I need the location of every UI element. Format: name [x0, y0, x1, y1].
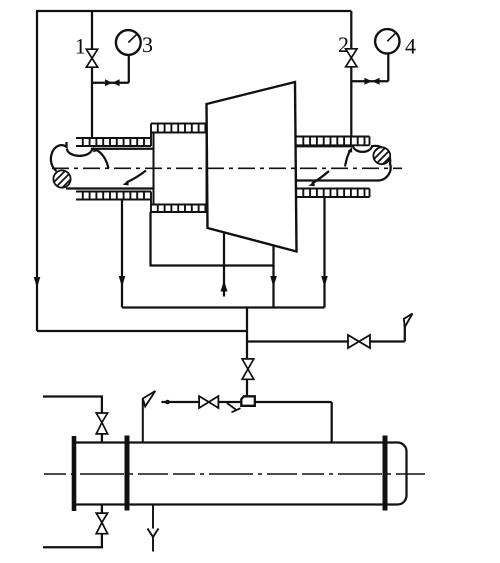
- wire: top header pipe: [36, 10, 351, 12]
- steam trap / regulator body: [241, 396, 255, 406]
- valve 2: [346, 49, 357, 67]
- left gland inner labyrinth (lower): [151, 205, 207, 213]
- condenser shell: [76, 443, 385, 505]
- left gland outer labyrinth (lower): [76, 192, 151, 213]
- wire: left gland supply pipe: [91, 11, 93, 139]
- drain tick under trap: [227, 403, 241, 412]
- wire: leak-off collector header: [122, 306, 325, 308]
- vent flag symbol: [404, 314, 413, 328]
- condenser right tube sheet: [383, 436, 388, 511]
- label 1: [77, 39, 85, 54]
- right shaft end journal (hatched): [364, 133, 396, 180]
- wire: left inner gland drain: [151, 212, 274, 266]
- left shaft outline: [51, 142, 154, 189]
- pressure gauge 4: [375, 29, 399, 53]
- wire: gauge 3 stem: [92, 55, 129, 83]
- vent valve: [348, 335, 370, 348]
- wire: cooling water outlet: [43, 505, 102, 547]
- wire: vent branch to atmosphere: [247, 319, 405, 342]
- node: turbine shaft centerline: [52, 167, 402, 169]
- right gland labyrinth (upper): [297, 137, 370, 146]
- gauge 4 isolation valve: [364, 78, 379, 85]
- label 2: [339, 37, 348, 52]
- wire: left outer leak-off pipe down: [36, 11, 38, 331]
- wire: collector drop pipe: [246, 308, 248, 397]
- wire: right gland supply pipe: [350, 11, 352, 137]
- right shaft outline: [297, 146, 391, 181]
- right gland steam flow arrow (to supply): [345, 150, 351, 167]
- vent flag at condenser: [142, 399, 144, 443]
- right gland labyrinth (lower): [297, 189, 370, 198]
- wire: condensate drain with funnel: [148, 505, 159, 552]
- left gland steam flow arrow (leak): [127, 171, 147, 183]
- condenser left water-box flange: [72, 436, 77, 511]
- wire: turbine sealing steam riser: [223, 233, 225, 297]
- trap line valve: [199, 396, 218, 408]
- right gland steam flow arrow (leak): [312, 171, 329, 184]
- condenser left tube sheet: [125, 436, 130, 511]
- condenser right head: [385, 443, 407, 505]
- wire: left return run to drop: [37, 330, 247, 332]
- node: junction dot on trap line: [165, 400, 170, 405]
- wire: right gland drain: [323, 197, 325, 308]
- cooling water inlet valve: [96, 413, 107, 434]
- valve 1: [86, 49, 97, 67]
- left gland steam flow arrow (to supply): [97, 150, 109, 169]
- pressure gauge 3: [116, 30, 141, 55]
- left gland inner labyrinth (upper): [151, 124, 207, 133]
- left gland outer labyrinth (upper): [76, 124, 151, 147]
- wire: cooling water inlet: [43, 397, 102, 443]
- wire: turbine exhaust drain right: [272, 246, 274, 308]
- wire: left outer gland drain: [121, 200, 123, 308]
- flow arrow on left outer pipe: [34, 277, 41, 288]
- wire: trap inlet line: [162, 402, 332, 443]
- valve on drop pipe: [242, 359, 254, 379]
- left gland inner block: [154, 133, 207, 205]
- gauge 3 isolation valve: [105, 79, 120, 86]
- left shaft end journal (hatched): [44, 156, 78, 208]
- node: condenser centerline: [44, 473, 425, 475]
- label 4: [405, 39, 415, 53]
- turbine casing U1: [207, 82, 297, 252]
- cooling water outlet valve: [96, 513, 107, 534]
- wire: gauge 4 stem: [351, 53, 388, 81]
- label 3: [143, 37, 152, 52]
